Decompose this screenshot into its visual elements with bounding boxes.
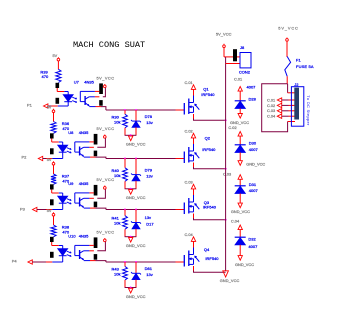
junction gate-D row2 [135,158,137,160]
junction source bus row2 [225,168,227,170]
opto U9 pin1 bar [50,184,54,189]
svg-text:IRF540: IRF540 [202,147,216,152]
svg-text:5V: 5V [53,54,58,58]
opto U7 phototransistor [80,91,95,106]
svg-text:GND_VCC: GND_VCC [220,278,240,283]
node C.03 (diode) [223,172,242,180]
wire collector to 5V_VCC [89,192,94,194]
svg-text:GND_VCC: GND_VCC [126,294,146,299]
svg-text:470: 470 [42,74,49,79]
svg-text:J8: J8 [240,45,245,50]
opto U8 4N35 label [68,130,89,135]
resistor R30 10k [112,110,128,128]
wire R/D join to GND row3 [125,229,137,238]
svg-text:U10: U10 [68,234,76,239]
transistor Q4 IRF540 [184,247,219,266]
opto U8 emitter bar [94,151,98,157]
power 5V_VCC (opto row1) [97,75,115,87]
zener 13v D17 [131,210,154,229]
wire source Q3 to GND bus [194,214,226,220]
opto U10 collector bar [94,237,98,248]
power 5V_VCC (opto row3) [97,177,115,189]
wire emitter to gate net row4 [90,261,184,262]
junction source bus row1 [225,119,227,121]
node C.02 (diode) [228,125,242,136]
opto U7 LED [58,95,73,106]
wire motor supply loop [262,84,295,132]
opto U9 collector bar [94,185,98,196]
svg-text:P1: P1 [27,102,33,107]
zener D79 13v [131,159,153,181]
svg-text:13v: 13v [146,120,152,125]
svg-text:IRF540: IRF540 [201,92,215,97]
wire CON2 pin2 [226,57,240,64]
svg-text:5V: 5V [47,158,52,162]
ground GND_VCC (diode row1) [230,114,249,126]
svg-text:R37: R37 [62,173,70,178]
wire collector to 5V_VCC [89,141,94,143]
svg-text:C.04: C.04 [231,218,240,223]
ground GND_VCC (gate clamp row1) [126,136,146,147]
svg-text:4007: 4007 [249,147,259,152]
svg-text:Tu DC Stepper: Tu DC Stepper [306,95,311,126]
opto U8 collector bar [94,134,98,145]
wire collector to 5V_VCC [95,90,100,92]
svg-text:R38: R38 [62,224,70,229]
svg-text:4N35: 4N35 [79,234,89,239]
svg-text:D31: D31 [249,182,257,187]
svg-text:D81: D81 [145,266,153,271]
power 5V_VCC (CON2) [216,32,232,57]
wire base bar elbow [89,138,105,147]
opto U7 emitter bar [99,100,103,106]
wire opto pin1 to LED [52,139,63,146]
ground GND_VCC (diode row4) [235,256,254,267]
power 5V_VCC (opto row4) [97,229,115,241]
svg-text:F1: F1 [296,58,301,63]
connector J8 pin bar [233,49,237,61]
svg-text:GND_VCC: GND_VCC [126,195,146,200]
junction gate-R row1 [124,109,126,111]
svg-text:D17: D17 [146,221,154,226]
resistor R41 10k [112,210,128,230]
svg-text:C.04: C.04 [185,232,194,237]
junction gate-R row4 [124,261,126,263]
port P1 [27,102,48,108]
node C.03 (drain) [185,179,196,195]
opto U8 pin2 bar [50,148,54,154]
svg-text:D28: D28 [249,97,257,102]
svg-text:C.01: C.01 [267,97,275,102]
svg-text:MACH CONG SUAT: MACH CONG SUAT [73,40,145,50]
svg-text:C.02: C.02 [228,125,236,130]
svg-text:GND_VCC: GND_VCC [235,262,254,267]
opto U7 collector bar [99,83,103,94]
ground GND_VCC (gate clamp row2) [126,190,146,201]
svg-text:Q4: Q4 [204,247,210,252]
svg-text:C.02: C.02 [185,128,193,133]
svg-text:P3: P3 [20,206,26,211]
svg-text:4N35: 4N35 [84,80,94,85]
svg-text:Q2: Q2 [205,136,211,141]
opto U10 phototransistor [75,245,90,260]
transistor Q1 IRF540 [184,87,215,115]
svg-text:10k: 10k [114,173,120,178]
resistor R36 470 (row2 pull-up) [51,121,70,134]
opto U7 4N35 label [74,80,95,85]
svg-text:5V_VCC: 5V_VCC [97,229,115,234]
opto U7 pin2 bar [56,98,60,104]
ground GND_VCC (diode row3) [231,203,250,214]
wire P3 to opto [37,209,52,211]
svg-text:C.03: C.03 [185,179,193,184]
svg-text:U7: U7 [74,80,80,85]
svg-text:GND_VCC: GND_VCC [231,209,250,214]
diode D28 1N4007 [235,85,257,114]
ground GND_VCC (bus end) [220,271,240,283]
node C.02 (drain) [185,128,196,144]
wire R/D join to GND row4 [125,280,137,289]
svg-text:4007: 4007 [247,85,257,90]
opto U9 light arrows [67,199,71,204]
power 5V_VCC (opto row2) [97,126,115,138]
svg-text:C.01: C.01 [185,80,193,85]
wire R/D join to GND row1 [125,127,137,136]
opto U10 LED [52,249,67,262]
power 5V (row2 pull-up) [47,105,55,121]
wire source Q4 to GND bus [194,266,226,272]
svg-text:Q1: Q1 [203,87,209,92]
svg-text:C.01: C.01 [234,77,242,82]
resistor R43 10k [112,262,128,280]
svg-text:FUSE 5A: FUSE 5A [296,64,314,69]
opto U9 phototransistor [75,193,90,208]
transistor Q3 IRF540 [184,195,216,214]
wire opto pin1 to LED [52,242,63,249]
opto U7 pin1 bar [56,83,60,88]
port P3 [20,206,37,211]
fuse F1 FUSE 5A [285,57,314,84]
connector J8 CON2 [239,45,251,74]
svg-text:4007: 4007 [249,188,259,193]
diode D32 1N4007 [235,230,258,256]
junction gate-D row4 [135,261,137,263]
svg-text:5V: 5V [47,105,52,109]
svg-text:U9: U9 [68,181,74,186]
power 5V (row3 pull-up) [47,158,55,174]
svg-text:4N35: 4N35 [79,130,89,135]
wire GND bus vertical [225,64,227,271]
title MACH CONG SUAT [73,40,145,50]
svg-text:4N35: 4N35 [79,181,89,186]
svg-text:5V: 5V [47,209,52,213]
opto U9 pin2 bar [50,199,54,205]
ground GND_VCC (gate clamp row4) [126,288,146,299]
svg-text:D32: D32 [248,237,256,242]
port P2 [22,154,43,160]
zener D81 13v [131,262,153,280]
wire collector to 5V_VCC [89,244,94,246]
svg-text:5V_VCC: 5V_VCC [97,126,115,131]
opto U10 light arrows [67,251,71,256]
junction gate-D row1 [135,109,137,111]
svg-text:GND_VCC: GND_VCC [126,142,146,147]
opto U8 phototransistor [75,142,90,157]
svg-text:R36: R36 [62,121,70,126]
node C.01-C.04 (motor connector pins) [267,97,295,118]
opto U7 light arrows [72,97,76,102]
svg-text:10k: 10k [114,221,120,226]
connector J2 motor [291,82,310,126]
svg-text:IRF540: IRF540 [203,204,217,209]
opto U10 pin1 bar [50,237,54,242]
svg-text:13v: 13v [145,215,151,220]
svg-text:C.02: C.02 [267,103,275,108]
svg-text:C.03: C.03 [267,108,275,113]
svg-text:IRF540: IRF540 [205,256,219,261]
wire opto pin1 to LED [57,88,68,95]
svg-text:5V_VCC: 5V_VCC [216,32,232,37]
svg-text:U8: U8 [68,130,74,135]
svg-text:13v: 13v [146,173,152,178]
opto U9 4N35 label [68,181,89,186]
diode D31 1N4007 [235,179,259,203]
svg-text:D78: D78 [145,114,153,119]
resistor R39 470 (row1 pull-up) [40,69,61,82]
wire opto pin1 to LED [52,190,63,197]
svg-text:13v: 13v [146,272,152,277]
node C.04 (drain) [185,232,196,248]
port P4 [12,259,33,265]
wire base bar elbow [89,189,105,198]
wire P4 to opto [32,261,52,263]
wire CON2 pin1 [224,56,240,58]
wire P2 to opto [43,158,53,160]
node C.01 (drain) [185,80,196,96]
power 5V (row4 pull-up) [47,209,55,225]
svg-text:GND_VCC: GND_VCC [246,161,265,166]
opto U10 emitter bar [94,254,98,260]
transistor Q2 IRF540 [184,136,216,163]
svg-text:10k: 10k [114,119,120,124]
junction gate-D row3 [135,209,137,211]
opto U9 LED [52,196,67,209]
wire base bar elbow [89,242,105,251]
wire source Q2 to GND bus [194,163,226,169]
wire base bar elbow [95,88,106,97]
wire emitter to gate net row1 [96,107,185,110]
junction gate-R row3 [124,209,126,211]
wire R/D join to GND row2 [125,181,137,190]
opto U10 pin2 bar [50,252,54,258]
ground GND_VCC (diode row2) [238,161,265,167]
power 5V (row1 pull-up) [53,54,60,69]
svg-text:5V_VCC: 5V_VCC [97,75,115,80]
svg-text:CON2: CON2 [239,69,251,74]
svg-text:D79: D79 [145,167,153,172]
svg-text:C.03: C.03 [223,172,231,177]
wire P1 to opto [48,105,58,107]
opto U8 pin1 bar [50,133,54,138]
power 5V_VCC (fuse) [278,25,298,57]
diode D30 1N4007 [235,136,259,161]
junction gate-R row2 [124,158,126,160]
node C.01 (diode) [234,77,242,92]
svg-text:GND_VCC: GND_VCC [126,243,146,248]
wire emitter to gate net row2 [90,157,184,158]
svg-text:C.04: C.04 [267,114,276,119]
svg-text:P2: P2 [22,154,28,159]
resistor R38 470 (row4 pull-up) [51,224,70,237]
opto U10 4N35 label [68,234,89,239]
svg-text:4007: 4007 [248,244,258,249]
svg-text:D30: D30 [249,141,257,146]
resistor R37 470 (row3 pull-up) [51,173,70,184]
wire emitter to gate net row3 [90,208,184,209]
wire source Q1 to GND bus [194,114,226,120]
zener D78 13v [131,110,153,127]
resistor R40 10k [112,159,128,182]
svg-text:5V_VCC: 5V_VCC [278,25,298,30]
svg-text:5V_VCC: 5V_VCC [97,177,115,182]
ground GND_VCC (gate clamp row3) [126,238,146,249]
opto U8 light arrows [67,148,71,153]
svg-text:P4: P4 [12,259,18,264]
junction source bus row3 [225,219,227,221]
opto U8 LED [52,145,67,158]
node C.04 (diode) [231,218,243,229]
opto U9 emitter bar [94,202,98,208]
svg-text:10k: 10k [114,272,120,277]
